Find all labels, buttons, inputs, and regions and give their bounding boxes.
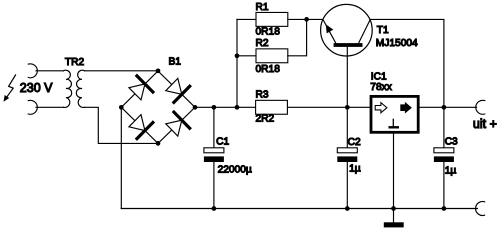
wire: junction to T1 emitter — [307, 18, 324, 20]
junction: C2 on 0V rail — [345, 206, 350, 211]
diode D1 (left node to top node) — [129, 76, 153, 100]
svg-text:0R18: 0R18 — [256, 27, 281, 38]
wire: bridge side bottom-right — [158, 107, 195, 143]
resistor R2 — [256, 49, 288, 63]
diode D4 (bottom node to right node) — [166, 112, 190, 136]
junction: bridge top AC node — [156, 68, 161, 73]
wire: secondary top to bridge top node — [85, 70, 159, 72]
wire: bridge side left-top — [121, 71, 158, 107]
svg-text:0R18: 0R18 — [256, 64, 281, 75]
svg-text:uit +: uit + — [473, 117, 497, 131]
wire: bottom terminal to TR2 primary — [36, 106, 64, 108]
svg-text:R1: R1 — [256, 2, 269, 13]
junction: bridge left DC- node — [119, 105, 124, 110]
capacitor C2 — [337, 148, 357, 209]
svg-text:230 V: 230 V — [20, 81, 53, 95]
capacitor C3 — [434, 107, 454, 208]
junction: R1/R2 right to emitter — [304, 17, 309, 22]
junction: T1 base / C2 / IC1 input node — [345, 105, 350, 110]
resistor R3 — [256, 100, 288, 114]
wire: T1 collector rail to output node — [370, 19, 444, 107]
0V bottom rail — [121, 208, 477, 210]
junction: output node — [442, 105, 447, 110]
regulator IC1 box — [371, 96, 418, 132]
transformer TR2 secondary winding — [76, 70, 84, 107]
svg-text:C3: C3 — [445, 136, 458, 147]
svg-text:C1: C1 — [216, 137, 229, 148]
junction: R1/R2 bus on + wire — [235, 105, 240, 110]
wire: bus to R2 — [237, 55, 256, 57]
svg-text:78xx: 78xx — [370, 82, 392, 93]
wire: bridge right node to R3 (main + wire) — [195, 106, 256, 108]
svg-text:R2: R2 — [256, 38, 269, 49]
diode D2 (top node to right node) — [166, 78, 190, 102]
junction: C1 on 0V rail — [212, 206, 217, 211]
capacitor C1 — [204, 107, 224, 208]
junction: bridge bottom AC node — [156, 141, 161, 146]
junction: bridge right DC+ node — [193, 105, 198, 110]
svg-text:22000µ: 22000µ — [218, 165, 252, 176]
svg-text:MJ15004: MJ15004 — [376, 38, 418, 49]
wire: T1 base down to IC1 input node, and on to C2 — [346, 47, 348, 148]
wire: bridge side top-right — [158, 71, 195, 107]
diode D3 (left node to bottom node) — [129, 115, 153, 139]
wire: bus to R1 — [237, 18, 256, 20]
svg-text:C2: C2 — [348, 137, 361, 148]
transformer TR2 primary winding — [64, 70, 72, 107]
wire: R3 right to IC1 input — [287, 106, 369, 108]
ground symbol — [384, 222, 404, 227]
junction: C1 tap on + wire — [212, 105, 217, 110]
input terminal top — [28, 64, 37, 78]
input terminal bottom — [28, 100, 37, 114]
svg-text:TR2: TR2 — [65, 57, 85, 68]
transistor T1 — [321, 4, 373, 56]
mains lightning symbol — [4, 75, 16, 102]
svg-text:2R2: 2R2 — [256, 114, 275, 125]
svg-text:1µ: 1µ — [445, 166, 457, 177]
wire: IC1 ground pin down through rail to earth — [393, 134, 395, 223]
wire: R2 right up to junction — [288, 19, 307, 55]
svg-text:1µ: 1µ — [349, 164, 361, 175]
output terminal minus — [476, 202, 485, 216]
junction: IC1 ground pin on 0V rail — [391, 206, 396, 211]
wire: secondary bottom to bridge bottom node — [85, 107, 159, 143]
resistor bus left vertical — [236, 19, 238, 107]
wire: bridge left node down to 0V rail — [120, 107, 122, 208]
junction: C3 on 0V rail — [442, 206, 447, 211]
svg-text:T1: T1 — [377, 25, 389, 36]
wire: IC1 output to out terminal — [420, 106, 477, 108]
junction: R2 left tap — [235, 53, 240, 58]
svg-text:B1: B1 — [169, 57, 182, 68]
svg-text:R3: R3 — [256, 90, 269, 101]
wire: R1 right to junction — [288, 18, 307, 20]
output terminal plus — [476, 100, 485, 114]
wire: top terminal to TR2 primary — [36, 70, 64, 72]
wire: bridge side left-bottom — [121, 107, 158, 143]
resistor R1 — [256, 12, 288, 26]
